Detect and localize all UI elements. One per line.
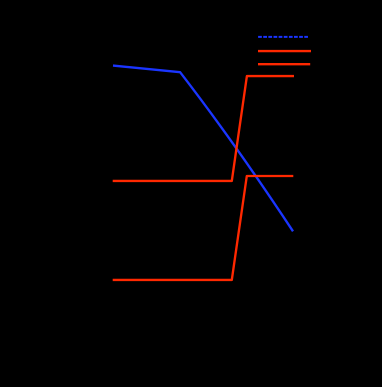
legend red line 1 [258, 50, 311, 52]
blue solid curve (descending series) [113, 66, 293, 232]
legend dashed blue line [258, 36, 308, 38]
legend red line 2 [258, 63, 310, 65]
red step curve B (lower) [113, 176, 294, 280]
red step curve A (upper) [113, 76, 294, 181]
